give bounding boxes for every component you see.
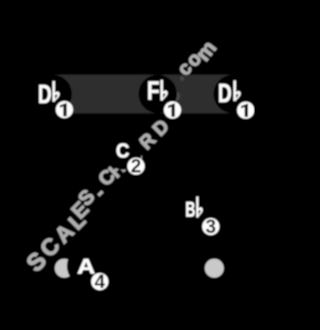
svg-text:B: B	[185, 198, 195, 222]
label A	[77, 254, 95, 278]
svg-text:D: D	[38, 81, 52, 109]
fret marker dot right	[205, 259, 224, 278]
finger badge 2	[127, 157, 144, 178]
svg-text:C: C	[116, 140, 129, 162]
finger badge 1	[237, 102, 254, 119]
note dot Db (barre right)	[214, 75, 252, 113]
label Db right	[218, 80, 241, 108]
note dot Db (barre left)	[34, 75, 72, 113]
note dot C	[104, 131, 142, 169]
svg-text:3: 3	[206, 217, 217, 238]
svg-text:4: 4	[95, 272, 106, 293]
fret marker dot left	[55, 259, 74, 278]
svg-text:D: D	[218, 80, 232, 108]
finger badge 1	[56, 101, 73, 118]
barre (fret-1 bar, capsule)	[34, 75, 253, 113]
label Db left	[38, 81, 60, 109]
svg-text:2: 2	[131, 157, 142, 178]
note dot Fb (barre middle)	[139, 75, 177, 113]
label Fb	[147, 78, 168, 106]
svg-text:A: A	[77, 254, 95, 278]
svg-text:F: F	[147, 78, 160, 106]
finger badge 3	[202, 217, 219, 238]
label Bb	[185, 197, 202, 222]
label C	[116, 140, 129, 162]
note dot Bb	[179, 192, 217, 230]
finger badge 4	[91, 272, 108, 293]
note dot A	[67, 247, 105, 285]
watermark SCALES-CHORDS.com (diagonal)	[22, 37, 222, 278]
finger badge 1	[164, 101, 181, 118]
